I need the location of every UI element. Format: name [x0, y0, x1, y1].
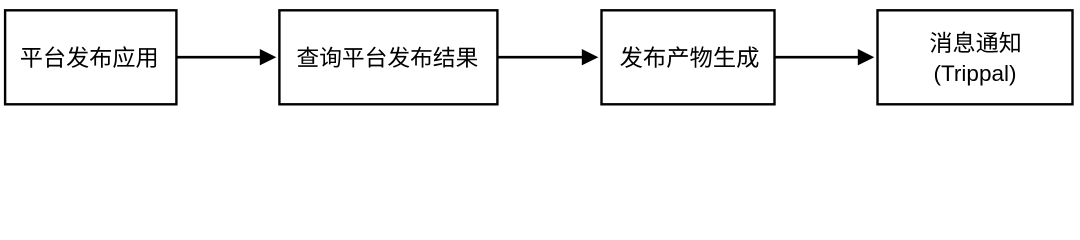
arrow 3 shaft [775, 56, 860, 59]
label line1 消息通知 [930, 32, 1019, 53]
label 平台发布应用 [21, 46, 156, 68]
process box 1: 平台发布应用 [5, 10, 176, 104]
label 发布产物生成 [620, 46, 758, 68]
arrow 2 shaft [497, 56, 583, 59]
process box 2: 查询平台发布结果 [279, 10, 497, 104]
arrow 2 head [582, 49, 599, 65]
svg-text:(Trippal): (Trippal) [934, 61, 1017, 86]
process box 4: 消息通知 (Trippal) [878, 10, 1073, 104]
process box 3: 发布产物生成 [602, 10, 775, 104]
arrow 1 head [260, 49, 277, 65]
arrow 3 head [858, 49, 875, 65]
label 查询平台发布结果 [297, 47, 477, 68]
arrow 1 shaft [176, 56, 261, 59]
